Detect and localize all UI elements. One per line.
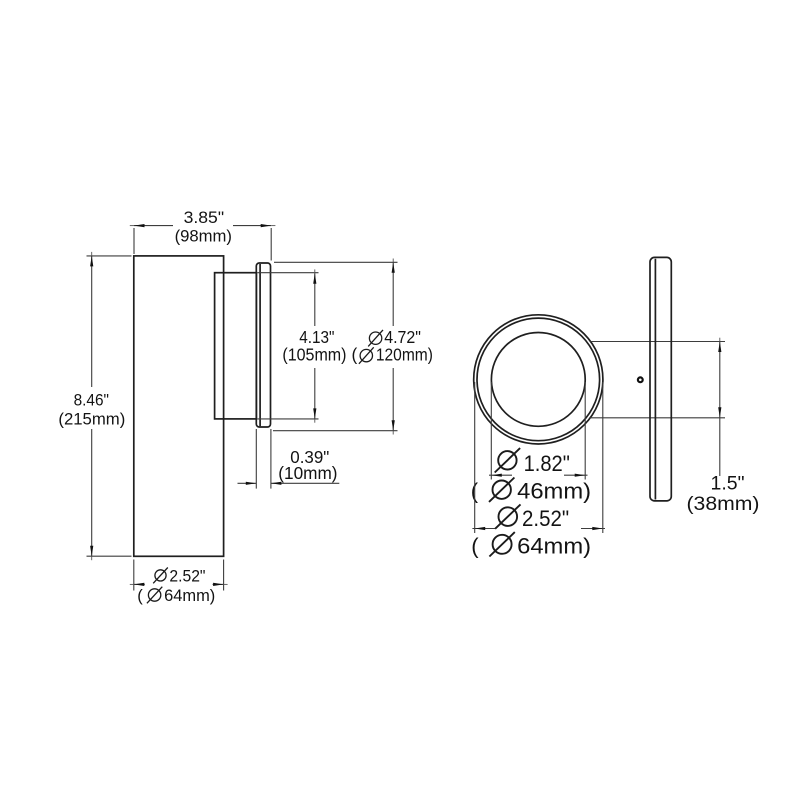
dimension 0.39in/10mm: dimension line left tail <box>238 482 257 484</box>
arm top line (top view) <box>591 341 726 343</box>
svg-text:8.46": 8.46" <box>74 392 110 410</box>
svg-text:(215mm): (215mm) <box>58 410 125 428</box>
dimension dia 2.52in/64mm (right): diameter symbol line1 <box>495 504 520 528</box>
wall plate lip line (top view) <box>654 259 656 500</box>
svg-text:120mm): 120mm) <box>376 345 433 365</box>
dimension dia 1.82in/46mm: diameter symbol line1 <box>495 448 520 472</box>
svg-text:(: ( <box>352 345 358 365</box>
dimension 4.13in/105mm: dimension line <box>314 273 316 326</box>
dimension dia 2.52in/64mm (bottom left): arrows <box>134 583 224 586</box>
svg-text:(: ( <box>471 534 479 559</box>
dimension dia 2.52in/64mm (bottom left): extension line left <box>133 560 135 591</box>
dimension dia 1.82in/46mm: extension line right <box>584 382 586 480</box>
dimension 8.46in/215mm: extension line bottom <box>87 555 132 557</box>
dimension 3.85in/98mm: extension line right <box>270 228 272 261</box>
dimension dia 2.52in/64mm (right): arrows <box>475 527 603 530</box>
dimension 1.5in/38mm: dimension line <box>719 342 721 477</box>
dimension 3.85in/98mm: extension line left <box>133 228 135 254</box>
wall plate lip line (side view) <box>259 264 261 426</box>
svg-text:64mm): 64mm) <box>517 534 591 559</box>
dimension 0.39in/10mm: extension line left <box>255 429 257 489</box>
svg-text:(: ( <box>137 586 143 605</box>
inner bore circle (top view) <box>491 333 585 427</box>
svg-text:(10mm): (10mm) <box>278 463 337 483</box>
dimension dia 2.52in/64mm (bottom left): dimension line stubs <box>134 583 145 585</box>
svg-text:(105mm): (105mm) <box>282 345 346 365</box>
dimension 3.85in/98mm: arrows <box>134 224 271 227</box>
dimension 1.5in/38mm: arrows <box>718 342 721 418</box>
dimension dia 1.82in/46mm: arrows <box>491 474 585 477</box>
svg-text:1.5": 1.5" <box>711 474 745 495</box>
dimension dia 2.52in/64mm (right): extension line right <box>602 382 604 533</box>
dimension 0.39in/10mm: arrows <box>246 482 282 485</box>
arrow tip overshoot ticks <box>92 226 720 585</box>
screw dot <box>638 377 643 382</box>
svg-text:(38mm): (38mm) <box>687 494 760 515</box>
arm bottom line (top view) <box>590 417 725 419</box>
dimension 4.13in/105mm: arrows <box>313 273 316 419</box>
wall plate (side view, edge) <box>256 263 270 427</box>
svg-text:46mm): 46mm) <box>517 479 591 504</box>
svg-text:3.85": 3.85" <box>184 209 225 227</box>
outer rim circle (top view) <box>474 315 603 444</box>
dimension 0.39in/10mm: extension line right <box>270 429 272 489</box>
cylinder face circle bold (top view) <box>477 318 600 441</box>
wall plate (top view, edge) <box>650 257 671 501</box>
dimension 8.46in/215mm: arrows <box>90 256 93 556</box>
dimension dia 1.82in/46mm: extension line left <box>490 382 492 480</box>
dimension dia 4.72in/120mm: diameter symbol line2 <box>359 347 374 364</box>
dimension 0.39in/10mm: dimension line right tail <box>271 482 339 484</box>
dimension dia 4.72in/120mm: dimension line <box>392 262 394 326</box>
dimension dia 2.52in/64mm (right): diameter symbol line2 <box>489 532 514 556</box>
mounting arm bracket (side view) <box>215 273 257 419</box>
svg-text:64mm): 64mm) <box>164 586 215 605</box>
dimension dia 4.72in/120mm: extension line bottom <box>273 430 398 432</box>
dimension dia 2.52in/64mm (bottom left): diameter symbol line1 <box>153 568 168 584</box>
dimension dia 2.52in/64mm (bottom left): diameter symbol line2 <box>147 587 162 604</box>
dimension 4.13in/105mm: extension line top <box>258 272 319 274</box>
dimension dia 2.52in/64mm (bottom left): extension line right <box>223 560 225 591</box>
dimension dia 4.72in/120mm: diameter symbol line1 <box>368 330 383 347</box>
dimension 8.46in/215mm: extension line top <box>87 255 132 257</box>
svg-text:2.52": 2.52" <box>169 566 205 585</box>
dimension dia 1.82in/46mm: dimension line stubs <box>489 474 512 476</box>
dimension dia 2.52in/64mm (right): dimension line stubs <box>472 528 495 530</box>
dimension 4.13in/105mm: extension line bottom <box>258 418 319 420</box>
cylinder body (side view) <box>134 256 224 556</box>
dimension 3.85in/98mm: dimension line <box>134 225 173 227</box>
dimension dia 4.72in/120mm: arrows <box>392 262 395 430</box>
svg-text:2.52": 2.52" <box>522 506 569 531</box>
dimension 8.46in/215mm: dimension line <box>91 256 93 387</box>
dimension dia 1.82in/46mm: diameter symbol line2 <box>489 478 514 502</box>
dimension dia 4.72in/120mm: extension line top <box>274 261 398 263</box>
svg-text:(98mm): (98mm) <box>175 227 232 245</box>
dimension dia 2.52in/64mm (right): extension line left <box>474 382 476 533</box>
svg-text:1.82": 1.82" <box>524 451 570 476</box>
